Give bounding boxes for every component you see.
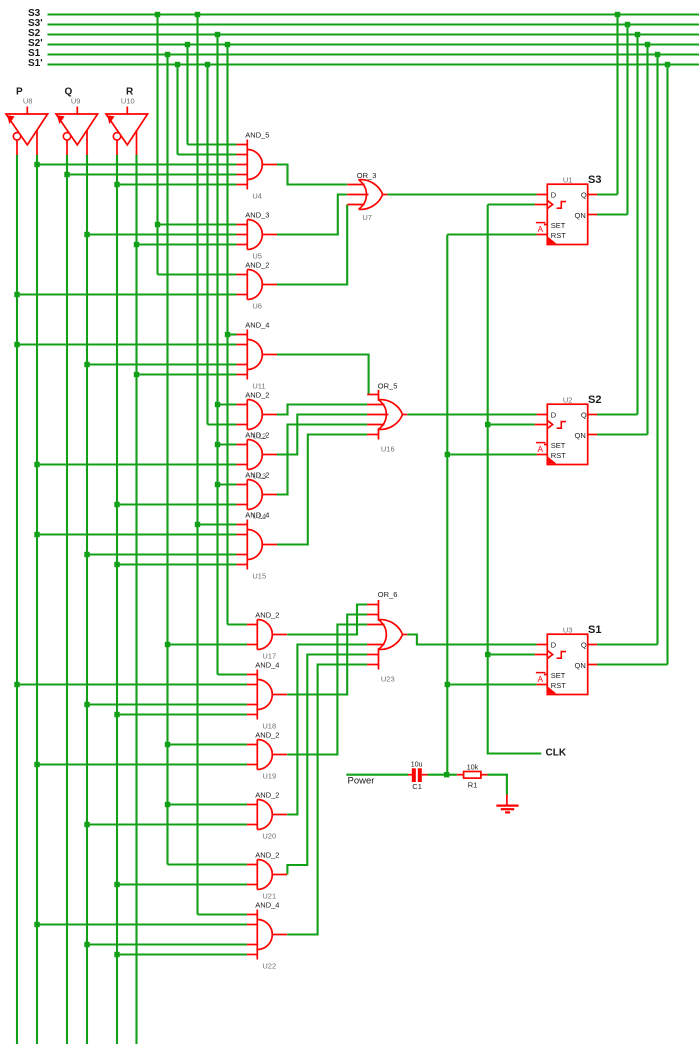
svg-text:C1: C1 (412, 782, 422, 791)
svg-text:OR_5: OR_5 (378, 382, 398, 391)
svg-text:OR_3: OR_3 (357, 171, 377, 180)
svg-text:U9: U9 (71, 97, 81, 106)
svg-text:S2: S2 (588, 394, 601, 406)
svg-text:10k: 10k (467, 764, 479, 771)
svg-text:U22: U22 (262, 962, 276, 971)
svg-text:SET: SET (551, 221, 566, 230)
svg-text:U20: U20 (262, 832, 276, 841)
svg-text:AND_4: AND_4 (245, 321, 269, 330)
svg-text:CLK: CLK (546, 748, 567, 759)
svg-text:RST: RST (551, 231, 566, 240)
svg-text:AND_2: AND_2 (255, 791, 279, 800)
svg-text:U7: U7 (362, 213, 372, 222)
svg-text:SET: SET (551, 671, 566, 680)
svg-text:S3: S3 (588, 174, 601, 186)
svg-text:U5: U5 (252, 252, 262, 261)
svg-text:Q: Q (581, 641, 587, 650)
svg-text:10u: 10u (411, 761, 423, 768)
svg-text:A: A (538, 675, 544, 684)
svg-text:D: D (551, 191, 557, 200)
svg-text:U8: U8 (23, 97, 33, 106)
svg-text:U19: U19 (262, 772, 276, 781)
svg-text:AND_2: AND_2 (255, 731, 279, 740)
svg-text:AND_5: AND_5 (245, 131, 269, 140)
svg-text:U4: U4 (252, 192, 262, 201)
svg-text:U23: U23 (381, 674, 395, 683)
svg-text:Power: Power (348, 776, 375, 787)
svg-text:S1: S1 (588, 624, 601, 636)
svg-text:U18: U18 (262, 722, 276, 731)
svg-text:U17: U17 (262, 652, 276, 661)
svg-text:U1: U1 (563, 175, 573, 184)
svg-text:AND_2: AND_2 (245, 261, 269, 270)
svg-text:D: D (551, 641, 557, 650)
svg-text:AND_2: AND_2 (255, 611, 279, 620)
svg-text:S1': S1' (28, 58, 43, 69)
svg-text:U21: U21 (262, 892, 276, 901)
svg-text:U11: U11 (252, 382, 265, 391)
svg-text:U15: U15 (252, 572, 266, 581)
svg-text:AND_3: AND_3 (245, 211, 269, 220)
svg-text:QN: QN (575, 661, 586, 670)
svg-text:AND_4: AND_4 (255, 661, 279, 670)
svg-text:A: A (538, 445, 544, 454)
svg-text:RST: RST (551, 681, 566, 690)
svg-text:Q: Q (581, 191, 587, 200)
svg-text:AND_4: AND_4 (255, 901, 279, 910)
svg-text:AND_2: AND_2 (255, 851, 279, 860)
svg-text:AND_2: AND_2 (245, 431, 269, 440)
svg-text:U3: U3 (563, 625, 573, 634)
svg-text:AND_2: AND_2 (245, 471, 269, 480)
svg-text:SET: SET (551, 441, 566, 450)
svg-text:RST: RST (551, 451, 566, 460)
svg-text:Q: Q (581, 411, 587, 420)
svg-text:AND_2: AND_2 (245, 391, 269, 400)
svg-text:A: A (538, 225, 544, 234)
svg-text:U6: U6 (252, 302, 262, 311)
svg-text:QN: QN (575, 211, 586, 220)
svg-text:U2: U2 (563, 395, 573, 404)
svg-text:R1: R1 (468, 780, 478, 789)
svg-text:D: D (551, 411, 557, 420)
svg-text:U10: U10 (121, 97, 135, 106)
svg-text:U16: U16 (381, 444, 395, 453)
svg-text:QN: QN (575, 431, 586, 440)
svg-text:OR_6: OR_6 (378, 590, 398, 599)
svg-text:AND_4: AND_4 (245, 511, 269, 520)
